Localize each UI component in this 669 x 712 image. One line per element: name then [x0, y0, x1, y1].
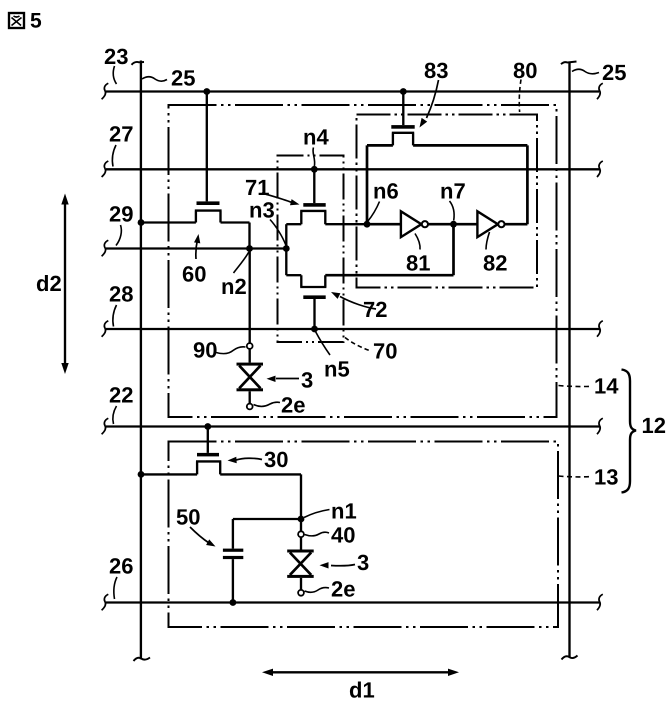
svg-text:d1: d1 [349, 678, 375, 703]
node dot n2 on bus 29 [246, 245, 253, 252]
tick top line 25 right [561, 62, 577, 65]
box 70 (memory cell, dash-dot) [278, 156, 344, 343]
node dot n3 on bus 29 [283, 245, 290, 252]
svg-text:60: 60 [182, 262, 206, 287]
leader 28 [113, 305, 117, 327]
leader 70 dashed [345, 338, 370, 351]
wire data line 25 left [140, 61, 142, 660]
svg-text:n5: n5 [324, 357, 350, 382]
arrow 3 lower [320, 562, 356, 568]
arrow d1 [262, 669, 459, 676]
leader 90 [216, 347, 246, 354]
terminal circle 2e upper [247, 404, 253, 410]
svg-text:25: 25 [602, 60, 626, 85]
leader 2e upper [254, 402, 281, 406]
node dot n7 [450, 221, 457, 228]
box 13 (pixel region lower, dash-dot) [169, 442, 559, 628]
leader n6 [367, 202, 379, 222]
svg-text:70: 70 [373, 339, 397, 364]
break mark left bus 29 [102, 240, 109, 256]
svg-text:n1: n1 [331, 499, 357, 524]
svg-text:n2: n2 [221, 274, 247, 299]
leader 29 [116, 225, 121, 246]
wire n1 drop [300, 519, 302, 531]
element 3 upper (liquid crystal) [237, 349, 264, 404]
box 80 (storage circuit, dash-dot) [357, 115, 538, 288]
leader n1 [304, 510, 330, 518]
svg-text:22: 22 [109, 383, 133, 408]
break mark right bus 28 [597, 321, 603, 337]
transistor 83 [367, 92, 527, 146]
wire n6 to inverter 81 [367, 223, 401, 226]
arrow 71 [262, 193, 300, 205]
terminal circle 2e lower [298, 590, 304, 596]
wire inverter 82 to loop right [505, 223, 528, 226]
wire n2 drop to element 3 upper [249, 249, 251, 344]
node dot n5 on bus 28 [311, 326, 318, 333]
terminal circle 90 [247, 343, 253, 349]
transistor 60 [141, 92, 250, 249]
capacitor 50 [223, 519, 301, 603]
svg-text:90: 90 [193, 338, 217, 363]
wire inverter 81 to n7 to inverter 82 [428, 223, 477, 226]
brace 12 [622, 370, 637, 493]
break mark left bus 23 [102, 83, 109, 99]
node dot bus27-gate71 n4 [311, 166, 318, 173]
break mark left bus 27 [102, 161, 109, 177]
break mark right bus 22 [597, 418, 603, 434]
leader n5 [316, 332, 331, 356]
break mark right bus 23 [597, 83, 603, 99]
element 3 lower (liquid crystal) [287, 537, 314, 590]
wire node n3 left leg [285, 224, 287, 275]
tick bottom line 25 right [562, 656, 578, 660]
svg-text:2e: 2e [281, 393, 305, 418]
break mark right bus 26 [597, 594, 603, 610]
svg-text:29: 29 [109, 202, 133, 227]
svg-text:83: 83 [424, 58, 448, 83]
wire n7 drop [452, 224, 455, 275]
leader 81 [415, 234, 420, 250]
svg-text:13: 13 [594, 465, 618, 490]
svg-text:n7: n7 [440, 179, 466, 204]
leader 80 dashed [519, 80, 521, 113]
leader n7 [450, 201, 455, 221]
tick top line 25 left [132, 62, 145, 65]
arrow 72 [331, 292, 376, 309]
svg-text:80: 80 [513, 58, 537, 83]
svg-text:26: 26 [109, 554, 133, 579]
inverter 82 [477, 211, 504, 237]
svg-text:d2: d2 [36, 271, 62, 296]
leader n4 [313, 148, 315, 167]
svg-text:3: 3 [301, 368, 313, 393]
leader n2 [234, 252, 249, 273]
svg-text:n6: n6 [373, 179, 399, 204]
svg-text:5: 5 [30, 10, 42, 33]
title 図5 [9, 10, 42, 33]
svg-text:23: 23 [104, 44, 128, 69]
node dot bus23-gate60 [203, 88, 210, 95]
svg-text:30: 30 [264, 447, 288, 472]
break mark left bus 28 [102, 321, 109, 337]
transistor 71 [286, 169, 401, 224]
svg-text:40: 40 [331, 523, 355, 548]
svg-text:14: 14 [594, 374, 619, 399]
leader 25 right [572, 69, 599, 74]
wire data line 25 right [568, 62, 570, 657]
leader 25 left [142, 77, 167, 81]
inverter 81 [401, 211, 428, 237]
node dot bus23-gate83 [400, 88, 407, 95]
leader 2e lower [305, 588, 330, 593]
node dot line25-source30 [138, 471, 145, 478]
leader 40 [305, 532, 330, 536]
svg-text:25: 25 [171, 66, 195, 91]
break mark left bus 26 [102, 594, 109, 610]
arrow 30 [228, 457, 263, 463]
leader 22 [113, 406, 117, 424]
wire bus 27 [106, 168, 600, 170]
node dot bus22-gate30 [204, 423, 211, 430]
node dot n1 [298, 516, 305, 523]
wire bus 22 [106, 425, 600, 427]
wire bus 28 [106, 328, 600, 330]
wire bus 23 [106, 90, 599, 92]
node dot cap50 bus26 [230, 599, 237, 606]
wire bus 26 [106, 601, 600, 603]
svg-text:27: 27 [109, 122, 133, 147]
leader 23 [113, 66, 116, 84]
svg-text:2e: 2e [331, 577, 355, 602]
leader 14 dashed [559, 386, 592, 387]
wire loop right edge [526, 145, 529, 224]
break mark right bus 27 [597, 161, 603, 177]
svg-text:12: 12 [642, 413, 666, 438]
terminal circle 40 [298, 531, 304, 537]
node dot line25-source60 [138, 219, 145, 226]
svg-text:81: 81 [406, 251, 430, 276]
transistor 72 [286, 275, 453, 329]
svg-text:82: 82 [483, 251, 507, 276]
svg-text:71: 71 [245, 175, 269, 200]
arrow 3 upper [267, 376, 300, 382]
node dot n6 [364, 221, 371, 228]
wire bus 29 [106, 247, 286, 249]
svg-text:28: 28 [109, 282, 133, 307]
svg-text:n4: n4 [303, 125, 329, 150]
arrow 83 [420, 80, 439, 128]
leader 82 [486, 232, 490, 250]
arrow 50 [190, 527, 216, 547]
svg-text:n3: n3 [249, 198, 275, 223]
arrow d2 [61, 194, 68, 375]
svg-text:50: 50 [176, 505, 200, 530]
leader 26 [114, 577, 117, 599]
svg-text:3: 3 [357, 550, 369, 575]
tick bottom line 25 left [134, 658, 151, 662]
wire loop left edge [366, 145, 369, 224]
leader 13 dashed [559, 475, 592, 478]
arrow 60 [194, 234, 200, 259]
break mark left bus 22 [102, 418, 109, 434]
transistor 30 [141, 427, 301, 520]
leader 27 [112, 145, 116, 167]
leader n3 [270, 220, 286, 246]
box 14 (pixel region upper, dash-dot) [169, 105, 557, 417]
